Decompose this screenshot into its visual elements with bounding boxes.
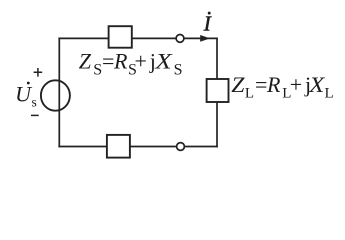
svg-text:Z: Z: [231, 72, 245, 97]
wire bottom: terminal b to bottom box: [130, 146, 177, 148]
bottom impedance box: [107, 135, 130, 158]
wire bottom: corner to terminal b: [185, 146, 218, 148]
label current I (dot above): [203, 12, 212, 36]
svg-text:s: s: [32, 95, 37, 110]
svg-text:S: S: [174, 61, 183, 78]
label ZL = RL + jXL: [231, 72, 333, 101]
svg-text:Z: Z: [79, 49, 92, 74]
svg-text:S: S: [93, 61, 102, 78]
svg-text:L: L: [325, 85, 334, 101]
svg-text:=: =: [102, 49, 114, 74]
wire top: source corner to Zs box: [58, 37, 108, 39]
svg-text:+: +: [290, 72, 302, 97]
svg-text:X: X: [154, 49, 173, 74]
svg-text:R: R: [266, 72, 281, 97]
svg-text:X: X: [308, 72, 326, 97]
terminal a (top, open circle): [176, 35, 184, 43]
svg-text:=: =: [255, 72, 267, 97]
voltage source U_s circle: [41, 80, 70, 110]
svg-text:U: U: [15, 82, 33, 107]
svg-text:I: I: [203, 12, 212, 36]
wire top: Zs box to terminal a: [132, 37, 176, 39]
load impedance ZL box: [207, 79, 229, 102]
wire top: terminal a to top-right corner: [184, 37, 218, 39]
svg-text:+: +: [135, 49, 147, 74]
wire bottom: box to bottom-left corner: [58, 146, 107, 148]
label source Us: [15, 82, 37, 110]
svg-text:L: L: [245, 85, 254, 101]
wire right vertical lower: [216, 102, 218, 147]
terminal b (bottom, open circle): [177, 143, 185, 151]
polarity plus sign: [34, 68, 43, 77]
wire right vertical upper: [216, 38, 218, 80]
wire left vertical (through source): [58, 38, 60, 148]
current arrow head: [200, 35, 210, 42]
label Zs = Rs + jXs: [79, 49, 183, 79]
impedance Zs box: [109, 26, 132, 48]
svg-text:R: R: [113, 49, 128, 74]
polarity minus sign: [31, 114, 39, 116]
